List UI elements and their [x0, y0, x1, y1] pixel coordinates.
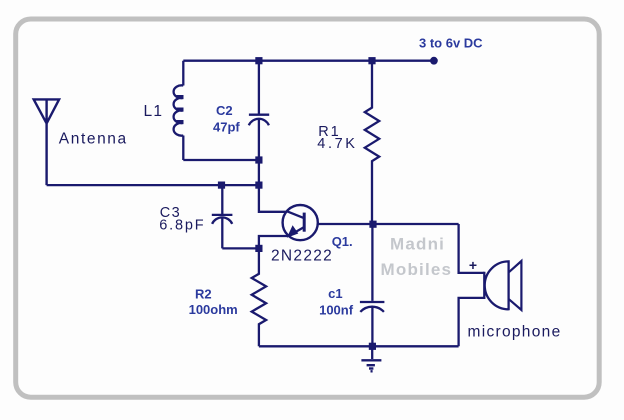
wire C3 bottom to node: [222, 247, 259, 249]
wire R1 branch down to C1: [371, 224, 373, 346]
svg-text:R2: R2: [195, 286, 212, 301]
ground: [361, 346, 381, 371]
resistor R2: [252, 248, 266, 346]
wire L1 branch: [182, 61, 184, 160]
svg-text:L1: L1: [144, 103, 164, 120]
svg-text:Antenna: Antenna: [59, 130, 128, 147]
wire node to collector: [259, 160, 287, 212]
svg-text:2N2222: 2N2222: [271, 247, 333, 264]
svg-text:microphone: microphone: [468, 324, 562, 341]
svg-text:Q1.: Q1.: [332, 234, 353, 249]
wire emitter to node: [259, 236, 288, 248]
junction emitter node: [255, 245, 262, 252]
wire base lead: [318, 223, 459, 225]
junction R1 top rail: [368, 57, 375, 64]
svg-text:100ohm: 100ohm: [189, 302, 238, 317]
svg-text:c1: c1: [328, 286, 342, 301]
transistor Q1 emitter arrow: [287, 225, 299, 238]
antenna: [34, 99, 59, 185]
wire mic return branch: [459, 298, 485, 346]
junction base R1 node: [369, 221, 376, 228]
junction C2 top rail: [255, 57, 262, 64]
capacitor C3: [212, 185, 233, 248]
wire top supply rail: [183, 60, 434, 62]
wire ground rail: [259, 345, 459, 347]
svg-text:Madni: Madni: [390, 235, 445, 254]
capacitor C2: [249, 61, 269, 160]
junction antenna node: [255, 182, 262, 189]
capacitor c1: [360, 301, 385, 303]
junction C3 top: [218, 182, 225, 189]
microphone symbol: [484, 260, 508, 310]
transistor Q1 body: [283, 205, 318, 240]
svg-text:C2: C2: [216, 103, 233, 118]
junction ground node: [369, 343, 376, 350]
wire mic plus branch: [459, 224, 485, 273]
svg-text:3 to 6v DC: 3 to 6v DC: [419, 36, 483, 51]
inductor L1: [174, 85, 184, 135]
svg-text:+: +: [469, 257, 477, 273]
svg-text:4.7K: 4.7K: [317, 136, 357, 152]
wire tank bottom: [183, 159, 259, 161]
svg-text:47pf: 47pf: [213, 119, 240, 134]
wire antenna to tank: [47, 184, 259, 186]
resistor R1: [365, 61, 379, 225]
node supply terminal: [430, 57, 438, 65]
svg-text:100nf: 100nf: [319, 302, 354, 317]
svg-text:6.8pF: 6.8pF: [159, 218, 205, 234]
junction C2 bottom tank: [255, 156, 262, 163]
svg-text:Mobiles: Mobiles: [381, 260, 453, 279]
